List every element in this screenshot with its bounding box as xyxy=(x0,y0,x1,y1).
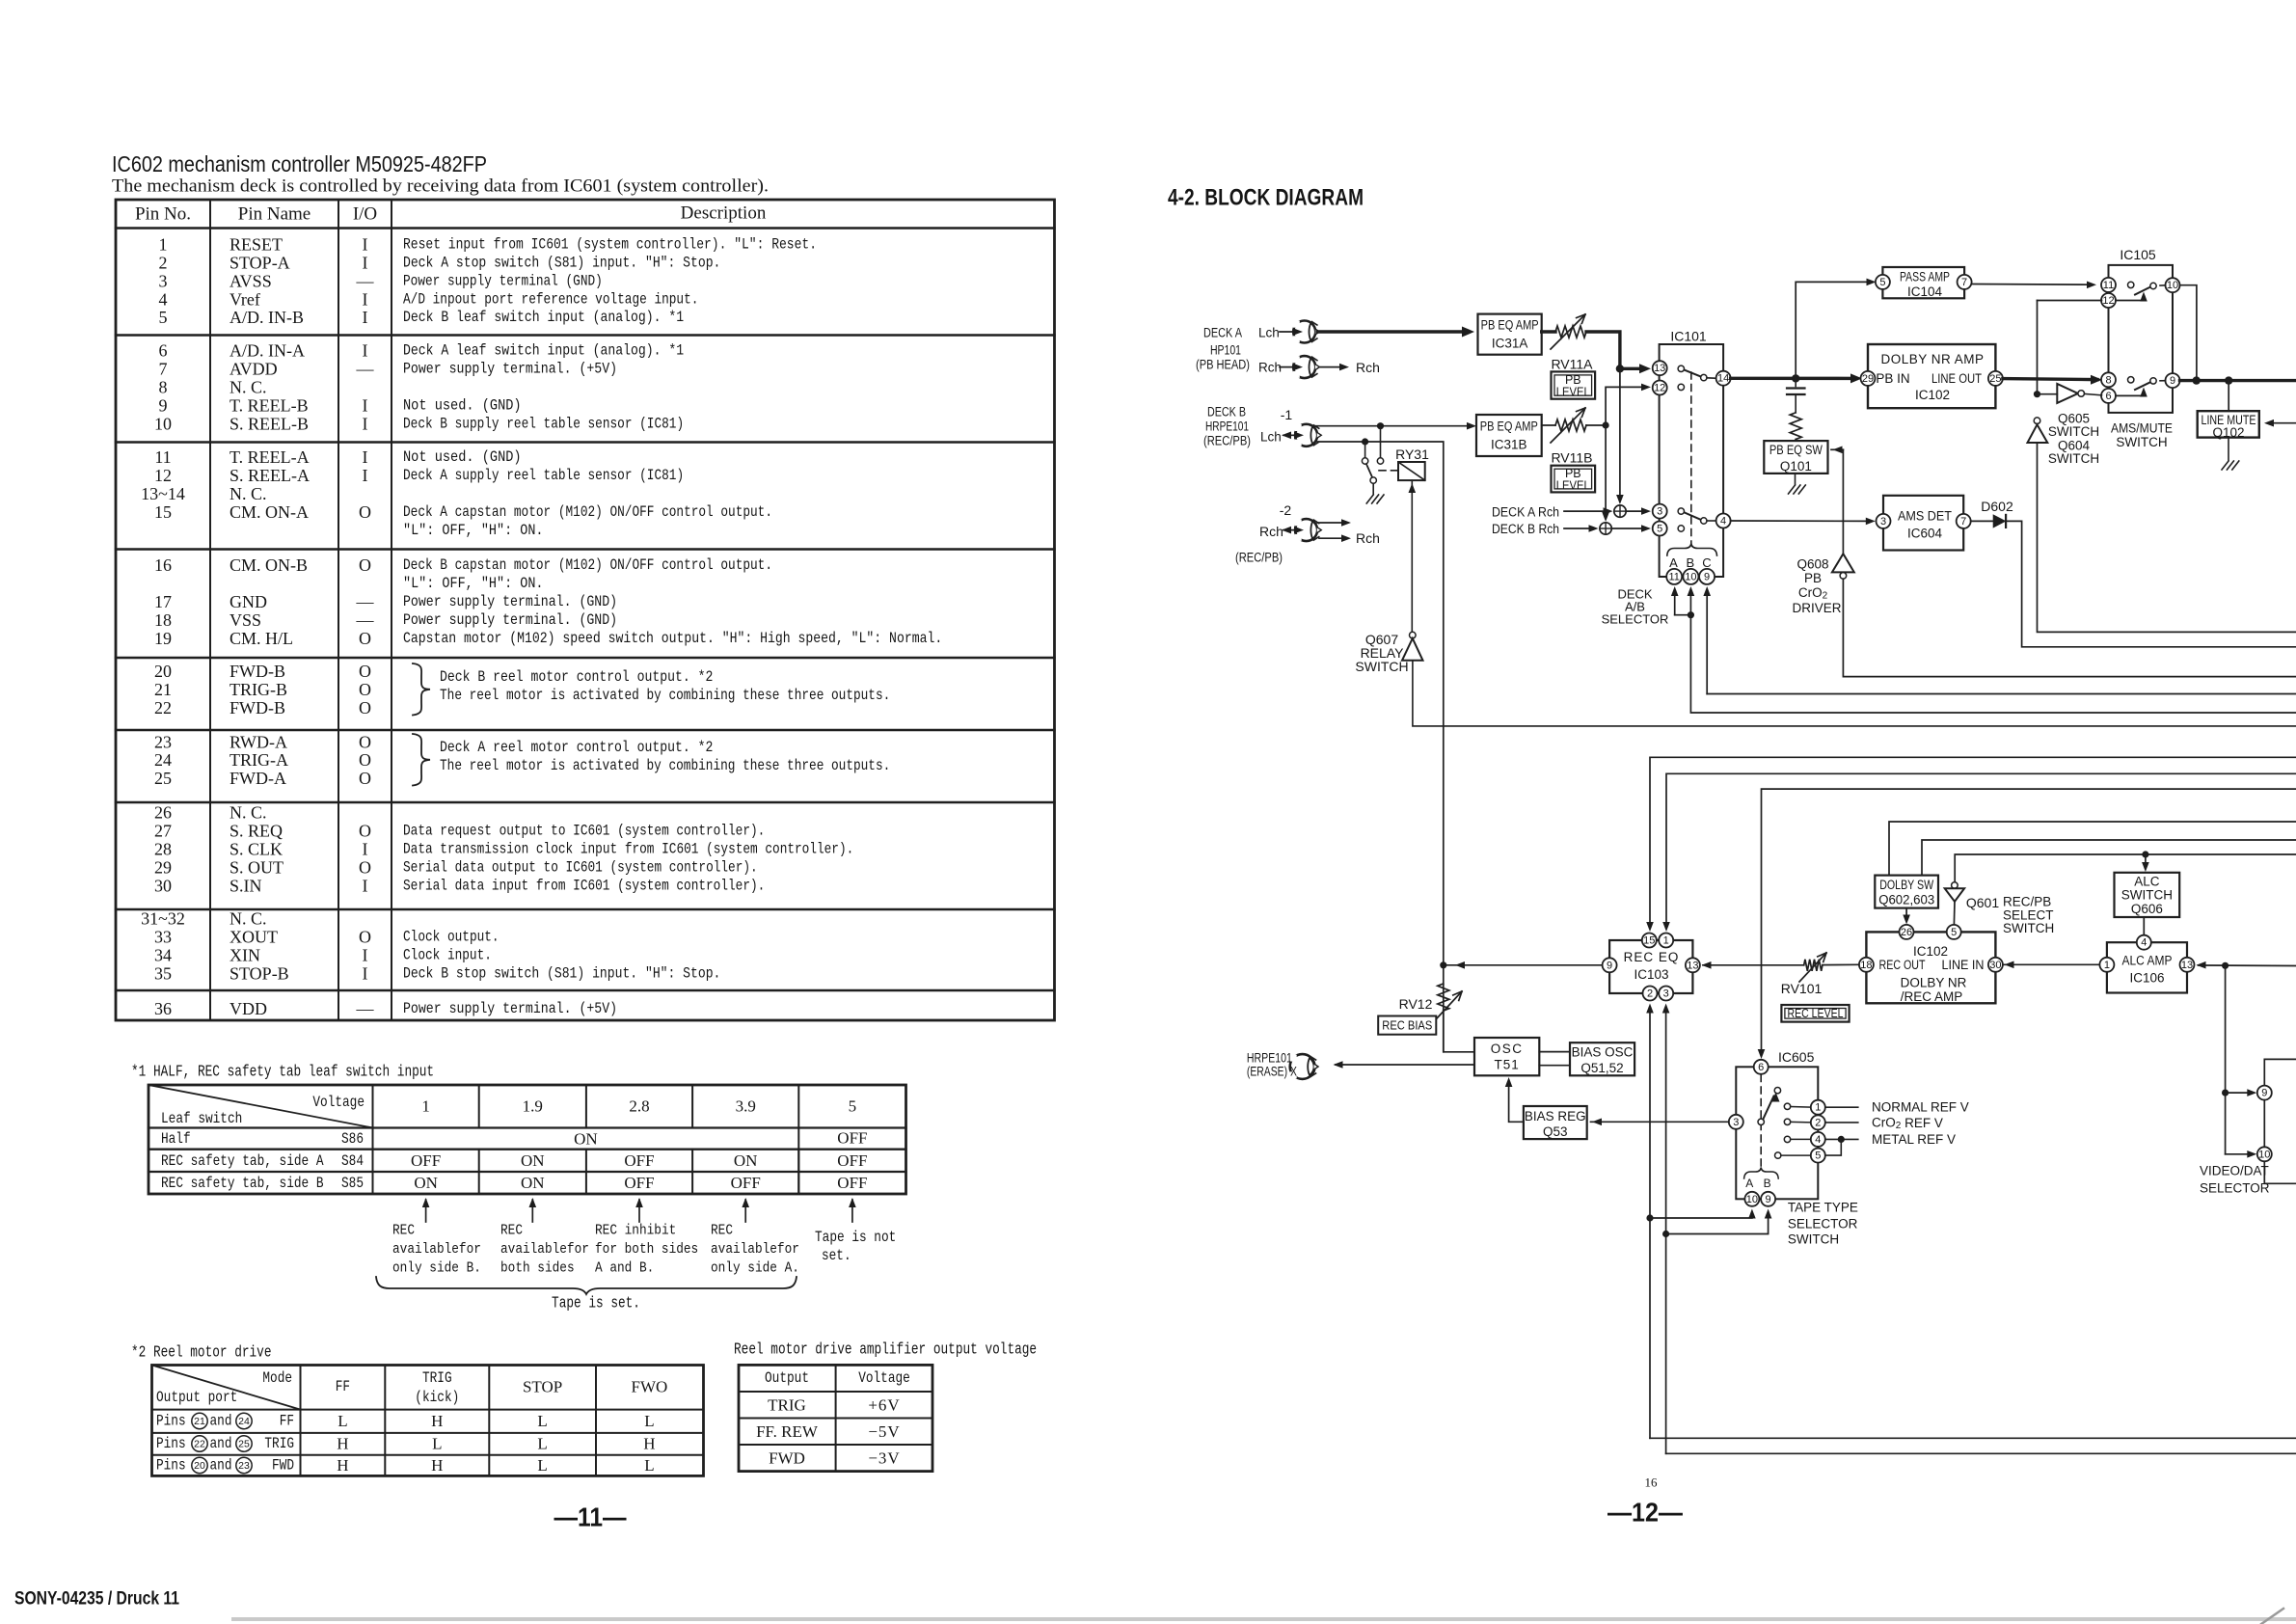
LINE MUTE Q102 box xyxy=(2198,411,2259,437)
svg-text:24: 24 xyxy=(154,750,172,770)
svg-text:L: L xyxy=(537,1435,547,1453)
pin 9 (IC105) xyxy=(2166,373,2180,388)
svg-text:17: 17 xyxy=(154,592,172,611)
svg-text:L: L xyxy=(644,1412,654,1430)
svg-text:N. C.: N. C. xyxy=(230,484,267,503)
svg-text:ON: ON xyxy=(574,1130,598,1149)
svg-text:IC604: IC604 xyxy=(1907,527,1943,541)
svg-text:H: H xyxy=(431,1412,443,1430)
svg-text:IC602 mechanism controller: IC602 mechanism controller M50925-482FP xyxy=(112,151,487,176)
svg-text:9: 9 xyxy=(159,395,168,415)
svg-text:for both sides: for both sides xyxy=(595,1241,698,1258)
svg-text:CM. ON-B: CM. ON-B xyxy=(230,555,308,575)
pin 1 (IC106) xyxy=(2099,958,2114,972)
svg-text:H: H xyxy=(643,1435,655,1453)
wire drop to relay contact xyxy=(1380,426,1382,458)
wire bus to IC605 pin6 xyxy=(1762,789,2296,1053)
svg-text:TRIG: TRIG xyxy=(422,1369,452,1387)
junction dot pass amp feed xyxy=(1792,374,1799,382)
wire BIAS REG to OSC xyxy=(1509,1082,1524,1122)
svg-text:O: O xyxy=(359,769,371,788)
svg-text:SWITCH: SWITCH xyxy=(2048,451,2099,466)
svg-text:23: 23 xyxy=(154,732,172,751)
switch contacts upper xyxy=(1678,365,1684,371)
svg-text:13: 13 xyxy=(1654,363,1665,374)
junction dot tape sel B xyxy=(1662,1231,1669,1237)
svg-text:ALC AMP: ALC AMP xyxy=(2122,954,2173,968)
svg-text:A: A xyxy=(1669,555,1678,570)
svg-text:5: 5 xyxy=(1815,1150,1821,1162)
svg-text:ON: ON xyxy=(521,1174,545,1192)
svg-text:CrO2 REF V: CrO2 REF V xyxy=(1872,1115,1943,1130)
junction dot video 9 xyxy=(2222,1090,2228,1096)
svg-text:D602: D602 xyxy=(1981,499,2013,514)
svg-text:HRPE101: HRPE101 xyxy=(1247,1051,1292,1066)
svg-text:5: 5 xyxy=(159,308,168,327)
svg-text:27: 27 xyxy=(154,821,172,840)
svg-text:I/O: I/O xyxy=(353,204,377,225)
svg-text:OFF: OFF xyxy=(837,1174,867,1192)
svg-text:25: 25 xyxy=(154,769,172,788)
IC605 box xyxy=(1736,1067,1818,1199)
svg-text:TRIG-A: TRIG-A xyxy=(230,750,288,770)
resistor RV101 xyxy=(1804,960,1823,971)
svg-text:S. REQ: S. REQ xyxy=(230,821,283,840)
svg-text:4: 4 xyxy=(2141,937,2147,949)
pin12 wire and arrow xyxy=(2116,300,2144,302)
pin 29 xyxy=(1861,371,1876,386)
ALC AMP IC106 box xyxy=(2107,942,2187,992)
svg-text:O: O xyxy=(359,662,371,681)
svg-text:3: 3 xyxy=(1880,516,1886,528)
svg-text:SWITCH: SWITCH xyxy=(2048,424,2099,439)
svg-text:only side A.: only side A. xyxy=(711,1260,799,1277)
svg-text:FF. REW: FF. REW xyxy=(756,1422,819,1441)
wire RV11B to junction xyxy=(1586,424,1606,426)
svg-text:30: 30 xyxy=(1989,960,2001,971)
svg-text:5: 5 xyxy=(1657,524,1662,535)
junction dot video branch xyxy=(2222,962,2228,969)
svg-text:TRIG: TRIG xyxy=(768,1396,806,1415)
wire pin10 to output xyxy=(2180,285,2197,377)
adder Deck B Rch xyxy=(1600,523,1611,534)
svg-text:Mode: Mode xyxy=(262,1369,292,1387)
svg-text:METAL REF V: METAL REF V xyxy=(1872,1132,1956,1147)
svg-text:1: 1 xyxy=(421,1097,430,1116)
svg-text:3.9: 3.9 xyxy=(736,1097,756,1116)
svg-text:REC safety tab, side A: REC safety tab, side A xyxy=(161,1152,324,1170)
svg-text:L: L xyxy=(338,1412,347,1430)
svg-text:Q608: Q608 xyxy=(1796,557,1828,572)
svg-text:6: 6 xyxy=(159,340,168,360)
svg-text:FF: FF xyxy=(336,1378,350,1395)
svg-text:1: 1 xyxy=(159,234,168,254)
svg-text:RV12: RV12 xyxy=(1399,996,1433,1012)
svg-text:Pin No.: Pin No. xyxy=(135,204,191,225)
pin table column lines xyxy=(209,200,211,1020)
wire right edge into pin13 xyxy=(2199,964,2296,967)
svg-text:REC BIAS: REC BIAS xyxy=(1382,1018,1432,1033)
svg-text:Deck A leaf switch input (anal: Deck A leaf switch input (analog). *1 xyxy=(403,341,684,359)
wire to pin5 contact xyxy=(1826,1139,1842,1155)
label box PB LEVEL (RV11A) xyxy=(1552,371,1596,398)
dashed selector link xyxy=(1760,1075,1762,1168)
svg-text:VDD: VDD xyxy=(230,999,267,1018)
wire into sel 9 xyxy=(2226,1092,2252,1094)
wire Lch double arrow xyxy=(1283,434,1299,436)
junction dot tape sel A xyxy=(1646,1214,1653,1221)
svg-text:Q101: Q101 xyxy=(1780,459,1812,474)
svg-text:5: 5 xyxy=(849,1097,857,1116)
svg-text:H: H xyxy=(337,1456,348,1475)
svg-text:9: 9 xyxy=(2170,375,2175,387)
svg-text:OFF: OFF xyxy=(624,1151,654,1170)
svg-text:CrO2: CrO2 xyxy=(1798,585,1828,601)
svg-text:OFF: OFF xyxy=(731,1174,761,1192)
brace pins 20-22 xyxy=(413,663,430,716)
svg-text:10: 10 xyxy=(2258,1149,2270,1160)
wire bus to DOLBY SW b xyxy=(1922,840,2296,876)
svg-text:HP101: HP101 xyxy=(1210,343,1241,358)
svg-text:Reel motor drive amplifier out: Reel motor drive amplifier output voltag… xyxy=(734,1341,1037,1360)
svg-text:Rch: Rch xyxy=(1356,360,1380,375)
pin 10 (IC105) xyxy=(2166,278,2180,292)
svg-text:Lch: Lch xyxy=(1260,430,1282,445)
leaf switch table frame xyxy=(149,1085,906,1194)
svg-text:—: — xyxy=(356,999,375,1018)
svg-text:28: 28 xyxy=(154,839,172,858)
svg-text:Data request output to IC601 (: Data request output to IC601 (system con… xyxy=(403,822,765,839)
wire vertical Q605 bus xyxy=(2037,301,2039,392)
svg-text:25: 25 xyxy=(238,1439,250,1450)
svg-text:L: L xyxy=(432,1435,442,1453)
wire pin4 to AMS DET xyxy=(1731,520,1870,522)
svg-text:B: B xyxy=(1764,1177,1771,1190)
svg-text:SELECTOR: SELECTOR xyxy=(2200,1181,2270,1196)
pin 7 (IC104) xyxy=(1958,275,1972,289)
svg-text:REC EQ: REC EQ xyxy=(1624,950,1680,964)
svg-text:ALC: ALC xyxy=(2134,875,2160,889)
selector wire A xyxy=(1674,590,1676,615)
svg-text:RV101: RV101 xyxy=(1781,981,1823,996)
svg-text:I: I xyxy=(363,447,368,467)
wire thick output xyxy=(2180,379,2296,382)
svg-text:3: 3 xyxy=(1733,1117,1739,1128)
svg-text:Half: Half xyxy=(161,1130,191,1148)
svg-text:25: 25 xyxy=(1989,373,2001,385)
svg-text:4-2. BLOCK DIAGRAM: 4-2. BLOCK DIAGRAM xyxy=(1168,185,1364,211)
svg-text:SWITCH: SWITCH xyxy=(1355,659,1408,674)
svg-text:PB EQ AMP: PB EQ AMP xyxy=(1480,420,1538,434)
svg-text:S. REEL-B: S. REEL-B xyxy=(230,414,309,433)
svg-text:13~14: 13~14 xyxy=(141,484,185,503)
pin 1 (IC103) xyxy=(1659,934,1673,948)
wire thick pin14 to Dolby xyxy=(1731,377,1856,381)
junction dot Q605 input xyxy=(2034,391,2040,397)
ground LINE MUTE xyxy=(2228,438,2229,460)
wire adder A to pin3 xyxy=(1626,510,1645,512)
wire thick IC31A to RV11A xyxy=(1542,330,1555,333)
svg-text:Vref: Vref xyxy=(230,289,260,309)
svg-text:I: I xyxy=(363,395,368,415)
svg-text:FWD: FWD xyxy=(769,1449,805,1468)
pin 6 (IC605) xyxy=(1754,1060,1769,1074)
pin 3 (IC604) xyxy=(1877,514,1891,528)
svg-text:Deck B supply reel table senso: Deck B supply reel table sensor (IC81) xyxy=(403,415,684,432)
svg-text:Deck A reel motor control outp: Deck A reel motor control output. *2 xyxy=(440,739,713,756)
wire Q607 to right edge xyxy=(1413,661,2296,726)
DOLBY SW Q602,603 box xyxy=(1875,876,1938,908)
svg-text:ON: ON xyxy=(521,1151,545,1170)
svg-text:IC31A: IC31A xyxy=(1492,337,1528,351)
svg-text:L: L xyxy=(644,1456,654,1475)
wire Deck B lower to long vertical xyxy=(1317,442,1444,1052)
svg-text:REC: REC xyxy=(500,1223,523,1239)
pin 15 xyxy=(1642,934,1657,948)
op-amp IC31A box xyxy=(1478,314,1542,355)
svg-text:SWITCH: SWITCH xyxy=(2003,921,2054,935)
svg-text:DECK A: DECK A xyxy=(1203,326,1242,340)
svg-text:BIAS REG: BIAS REG xyxy=(1525,1109,1586,1123)
wire up to pin12 xyxy=(1606,387,1645,425)
svg-text:FWD-B: FWD-B xyxy=(230,662,285,681)
wire adder B to pin5 xyxy=(1611,528,1645,529)
pin 9 (IC103) xyxy=(1603,958,1617,972)
svg-text:LINE IN: LINE IN xyxy=(1942,958,1985,972)
svg-text:2: 2 xyxy=(159,253,168,272)
svg-text:PB IN: PB IN xyxy=(1876,371,1909,386)
svg-text:IC102: IC102 xyxy=(1913,944,1948,959)
pin 11 (IC105) xyxy=(2101,278,2116,292)
wire into adder B xyxy=(1564,528,1593,529)
svg-text:DECK A Rch: DECK A Rch xyxy=(1492,505,1559,520)
pin 26 xyxy=(1900,925,1914,939)
svg-text:A/D. IN-B: A/D. IN-B xyxy=(230,308,304,327)
ground relay xyxy=(1366,495,1373,503)
resistor R101 xyxy=(1790,413,1801,440)
svg-text:I: I xyxy=(363,340,368,360)
svg-text:—11—: —11— xyxy=(554,1502,627,1532)
svg-text:REC OUT: REC OUT xyxy=(1879,958,1926,972)
svg-text:+6V: +6V xyxy=(868,1396,900,1415)
pin table frame xyxy=(116,200,1055,1020)
IC101 box xyxy=(1660,344,1724,577)
svg-text:22: 22 xyxy=(194,1439,205,1450)
svg-text:20: 20 xyxy=(194,1460,205,1472)
svg-text:CM. H/L: CM. H/L xyxy=(230,629,293,648)
svg-text:IC105: IC105 xyxy=(2120,247,2156,262)
pin 5 (IC102) xyxy=(1947,925,1961,939)
svg-text:IC103: IC103 xyxy=(1634,967,1668,982)
svg-text:Leaf switch: Leaf switch xyxy=(161,1110,242,1127)
svg-text:10: 10 xyxy=(1685,571,1696,582)
junction dot metal ref xyxy=(1838,1136,1845,1143)
wire erase head xyxy=(1336,1064,1474,1066)
svg-text:FWO: FWO xyxy=(632,1378,668,1396)
svg-text:3: 3 xyxy=(1663,988,1669,1000)
svg-text:O: O xyxy=(359,502,371,522)
svg-text:11: 11 xyxy=(154,447,171,467)
svg-text:SELECTOR: SELECTOR xyxy=(1788,1217,1858,1232)
svg-text:I: I xyxy=(363,253,368,272)
svg-text:Power supply terminal. (GND): Power supply terminal. (GND) xyxy=(403,611,617,629)
svg-text:Q53: Q53 xyxy=(1543,1124,1568,1139)
svg-text:*1 HALF, REC safety tab leaf s: *1 HALF, REC safety tab leaf switch inpu… xyxy=(131,1064,434,1082)
selector blade xyxy=(1763,1096,1773,1120)
junction dot ALC switch feed xyxy=(2142,851,2148,857)
svg-text:AMS DET: AMS DET xyxy=(1898,509,1952,524)
svg-text:IC101: IC101 xyxy=(1670,329,1707,344)
pin 14 xyxy=(1716,371,1731,386)
wire into adder A xyxy=(1564,510,1607,512)
brace pins 23-25 xyxy=(413,734,430,786)
svg-text:12: 12 xyxy=(2102,295,2114,307)
tape is set underbrace xyxy=(376,1277,797,1294)
wire Q604 down to bus xyxy=(2038,443,2296,632)
ground Q101 xyxy=(1795,474,1796,484)
wire bottom bus to pin2 xyxy=(1649,1009,1651,1438)
svg-text:(REC/PB): (REC/PB) xyxy=(1203,434,1251,448)
wire video selector vertical xyxy=(2225,965,2227,1154)
svg-text:13: 13 xyxy=(2181,960,2193,971)
wire Q608 line into Q101 xyxy=(1831,448,1843,450)
svg-text:I: I xyxy=(363,963,368,983)
svg-text:REC LEVEL: REC LEVEL xyxy=(1788,1007,1844,1020)
svg-text:2: 2 xyxy=(1647,988,1653,1000)
svg-text:PB EQ AMP: PB EQ AMP xyxy=(1481,318,1539,333)
capacitor C101 xyxy=(1795,378,1796,386)
svg-text:set.: set. xyxy=(822,1247,851,1264)
svg-text:I: I xyxy=(363,289,368,309)
pin 13 xyxy=(1653,361,1667,375)
svg-text:Rch: Rch xyxy=(1259,524,1283,539)
svg-text:I: I xyxy=(363,945,368,964)
svg-text:Not used. (GND): Not used. (GND) xyxy=(403,448,522,466)
pin 10 (video selector) xyxy=(2257,1147,2272,1161)
PB EQ SW Q101 box xyxy=(1764,441,1827,474)
head HP101 Rch xyxy=(1293,356,1315,378)
pin 1 (IC605) xyxy=(1811,1100,1825,1115)
wire Q606 to pin4 xyxy=(2143,917,2145,935)
pin 3 xyxy=(1653,504,1667,519)
svg-text:15: 15 xyxy=(1643,935,1655,947)
switch blade upper xyxy=(1685,370,1701,377)
svg-text:REC: REC xyxy=(711,1223,733,1239)
wire DOLBY SW to pin26 xyxy=(1905,908,1907,919)
svg-text:"L": OFF, "H": ON.: "L": OFF, "H": ON. xyxy=(403,575,544,592)
svg-text:BIAS OSC: BIAS OSC xyxy=(1572,1045,1634,1060)
switch contacts IC105 bottom xyxy=(2128,377,2134,383)
amp output voltage table frame xyxy=(739,1365,932,1471)
wire branch into IC605 pin9 xyxy=(1666,1212,1769,1234)
svg-text:Clock input.: Clock input. xyxy=(403,946,492,963)
junction dot pin10 join xyxy=(2193,376,2201,384)
wire branch to adder Deck A xyxy=(1619,368,1621,499)
svg-text:IC104: IC104 xyxy=(1907,284,1943,299)
svg-text:-2: -2 xyxy=(1280,502,1292,518)
svg-text:AVSS: AVSS xyxy=(230,271,272,290)
svg-text:Clock output.: Clock output. xyxy=(403,928,500,945)
svg-text:4: 4 xyxy=(159,289,168,309)
svg-text:DECK B Rch: DECK B Rch xyxy=(1492,522,1559,536)
svg-text:availablefor: availablefor xyxy=(392,1241,481,1258)
svg-text:26: 26 xyxy=(154,802,172,822)
pin 10 (IC605) xyxy=(1744,1192,1759,1206)
svg-text:L: L xyxy=(537,1412,547,1430)
svg-text:S.IN: S.IN xyxy=(230,876,262,895)
pin 9 (video selector) xyxy=(2257,1086,2272,1100)
relay pivot contact xyxy=(1370,477,1376,483)
svg-text:AMS/MUTE: AMS/MUTE xyxy=(2111,421,2173,436)
svg-text:O: O xyxy=(359,857,371,877)
pin6 wire and arrow xyxy=(2116,394,2144,396)
svg-text:30: 30 xyxy=(154,876,172,895)
svg-text:B: B xyxy=(1686,555,1694,570)
svg-text:16: 16 xyxy=(154,555,172,575)
svg-text:DRIVER: DRIVER xyxy=(1792,601,1841,615)
svg-text:21: 21 xyxy=(154,680,172,699)
svg-text:O: O xyxy=(359,821,371,840)
driver Q608 xyxy=(1832,554,1854,572)
pin 9 (IC605) xyxy=(1761,1192,1775,1206)
inverter Q601 xyxy=(1952,882,1958,889)
svg-text:XIN: XIN xyxy=(230,945,260,964)
svg-text:OSC: OSC xyxy=(1491,1042,1524,1056)
svg-text:S85: S85 xyxy=(341,1175,364,1192)
arrows under leaf table xyxy=(425,1200,427,1222)
svg-text:T. REEL-A: T. REEL-A xyxy=(230,447,310,467)
svg-text:O: O xyxy=(359,680,371,699)
svg-text:(REC/PB): (REC/PB) xyxy=(1235,551,1283,565)
wire arrow into LINE MUTE right xyxy=(2268,422,2296,424)
pin 25 xyxy=(1988,371,2003,386)
wire up to PASS AMP xyxy=(1796,282,1871,378)
svg-text:DOLBY NR AMP: DOLBY NR AMP xyxy=(1880,352,1984,366)
label box REC BIAS xyxy=(1378,1016,1436,1035)
svg-text:26: 26 xyxy=(1901,927,1912,938)
svg-text:11: 11 xyxy=(1668,571,1679,582)
svg-text:REC inhibit: REC inhibit xyxy=(595,1223,676,1239)
svg-text:CM. ON-A: CM. ON-A xyxy=(230,502,309,522)
wire bus Q601 xyxy=(1955,854,2296,882)
svg-text:RWD-A: RWD-A xyxy=(230,732,287,751)
svg-text:I: I xyxy=(363,308,368,327)
ref V wires xyxy=(1826,1106,1858,1108)
svg-text:FWD-B: FWD-B xyxy=(230,698,285,717)
svg-text:IC31B: IC31B xyxy=(1491,438,1527,452)
svg-text:Deck A stop switch (S81) input: Deck A stop switch (S81) input. "H": Sto… xyxy=(403,254,720,271)
svg-text:I: I xyxy=(363,234,368,254)
svg-text:Data transmission clock input: Data transmission clock input from IC601… xyxy=(403,840,853,857)
svg-text:ON: ON xyxy=(734,1151,758,1170)
svg-text:7: 7 xyxy=(1960,516,1966,528)
svg-text:LINE OUT: LINE OUT xyxy=(1931,371,1982,386)
svg-text:SWITCH: SWITCH xyxy=(2121,888,2173,903)
pin 10 xyxy=(1683,569,1698,584)
svg-text:Pins: Pins xyxy=(156,1413,186,1430)
svg-text:HRPE101: HRPE101 xyxy=(1205,420,1249,434)
resistor RV12 xyxy=(1438,984,1449,1011)
pin 3 (IC605) xyxy=(1729,1115,1743,1129)
svg-text:20: 20 xyxy=(154,662,172,681)
pin 5 (IC605) xyxy=(1811,1149,1825,1163)
IC102 rec amp box xyxy=(1866,932,1995,1003)
relay RY31 box xyxy=(1398,462,1425,480)
svg-text:14: 14 xyxy=(1717,373,1729,385)
svg-text:Lch: Lch xyxy=(1258,326,1280,340)
DOLBY NR AMP IC102 box xyxy=(1868,344,1995,408)
REC EQ IC103 box xyxy=(1609,940,1692,993)
